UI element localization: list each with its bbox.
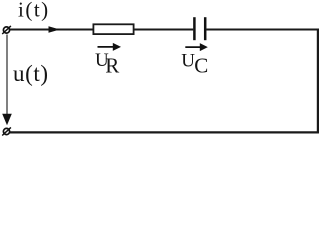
svg-text:R: R [105, 53, 119, 77]
svg-text:u(t): u(t) [13, 61, 49, 86]
svg-text:i(t): i(t) [18, 0, 50, 21]
svg-text:C: C [194, 53, 208, 77]
svg-text:U: U [181, 50, 195, 71]
